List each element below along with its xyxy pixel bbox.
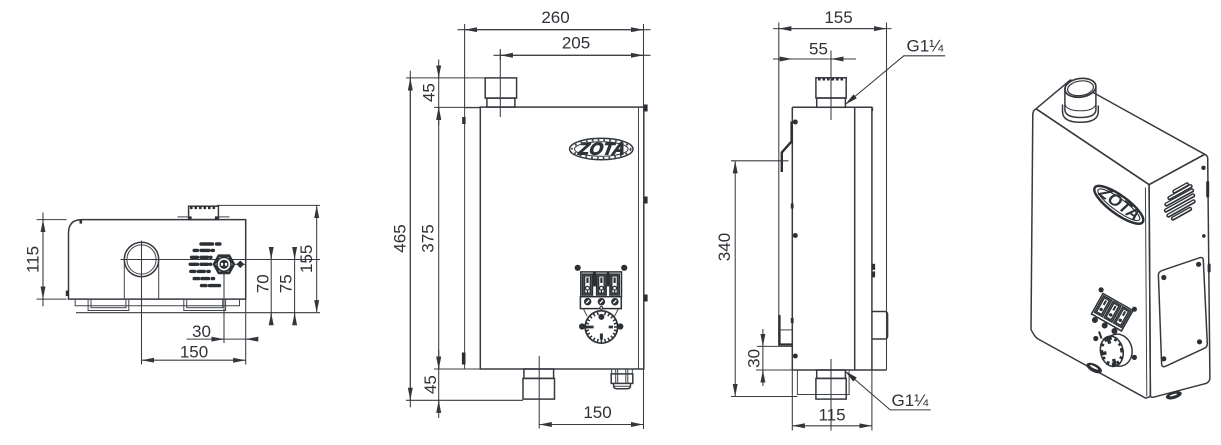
svg-text:340: 340 bbox=[715, 233, 734, 261]
dimension 150 (top view) bbox=[142, 343, 246, 362]
bottom stub centerline bbox=[830, 359, 832, 431]
svg-text:150: 150 bbox=[180, 343, 208, 362]
svg-text:30: 30 bbox=[744, 349, 763, 368]
svg-text:55: 55 bbox=[809, 40, 828, 59]
top stub centerline bbox=[499, 51, 501, 118]
gland centerline with node diamond bbox=[233, 263, 246, 265]
thermostat knob (front view) bbox=[583, 309, 618, 344]
foot right bbox=[1165, 390, 1183, 401]
thermostat knob (iso) bbox=[1098, 331, 1136, 369]
dimension 75 bbox=[277, 249, 296, 321]
svg-text:30: 30 bbox=[192, 322, 211, 341]
svg-text:115: 115 bbox=[24, 246, 43, 273]
vent slats (iso right face) bbox=[1166, 184, 1194, 218]
dimension 45 bottom bbox=[421, 350, 481, 418]
circuit breaker (front view) bbox=[581, 272, 622, 297]
dimension 70 bbox=[253, 249, 272, 321]
front face of cabinet bbox=[1031, 109, 1150, 398]
face screws (iso right) bbox=[1201, 166, 1205, 170]
hinge ticks (front door edge) bbox=[872, 264, 875, 270]
knob bump on door bbox=[872, 312, 888, 340]
base plate (top view) bbox=[75, 299, 239, 310]
svg-text:G1¼: G1¼ bbox=[892, 391, 930, 410]
hinge ticks right bbox=[644, 105, 648, 112]
rear panel strip (left) bbox=[465, 108, 481, 369]
svg-text:45: 45 bbox=[421, 375, 440, 394]
svg-text:G1¼: G1¼ bbox=[907, 37, 945, 56]
leader G1 1/4 top bbox=[845, 37, 945, 105]
extension line from flue union top bbox=[217, 204, 320, 206]
right face of cabinet bbox=[1149, 154, 1210, 397]
ZOTA badge (iso) bbox=[1090, 179, 1150, 230]
base tray (side view) bbox=[797, 370, 849, 395]
dimension 150 (front view) bbox=[539, 369, 643, 429]
cable gland (top view, hex nut) bbox=[214, 256, 234, 273]
svg-text:465: 465 bbox=[390, 224, 409, 252]
body (side view) bbox=[792, 23, 886, 371]
dimension 375 bbox=[419, 107, 439, 369]
panel screws (iso front) bbox=[1099, 287, 1104, 292]
bottom inlet stub (front view) bbox=[523, 369, 555, 399]
boiler body outline (top view) bbox=[69, 220, 246, 300]
bottom stub centerline bbox=[538, 356, 540, 429]
top stub centerline bbox=[830, 51, 832, 121]
hinge ticks (iso right edge) bbox=[1206, 181, 1209, 198]
dimension 340 bbox=[715, 161, 798, 397]
svg-text:205: 205 bbox=[562, 34, 590, 53]
dimension 30 (side view) bbox=[744, 329, 792, 386]
bottom inlet stub (side view) bbox=[816, 370, 846, 399]
lower wall bracket bbox=[779, 315, 792, 345]
foot front bbox=[1085, 361, 1104, 376]
svg-text:155: 155 bbox=[297, 245, 316, 273]
dimension 465 bbox=[390, 71, 434, 408]
top outlet stub (side view) bbox=[816, 78, 846, 108]
svg-text:ZOTA: ZOTA bbox=[576, 138, 627, 158]
leader G1 1/4 bottom bbox=[845, 371, 931, 410]
dimension 205 bbox=[494, 34, 651, 60]
tick on left edge bottom bbox=[66, 291, 69, 297]
horizontal centerline through circle and gland bbox=[121, 259, 321, 261]
vertical centerline of circle bbox=[141, 241, 143, 365]
rounded front-right edge (double line) bbox=[1145, 188, 1146, 397]
foot line / bottom extension bbox=[406, 399, 523, 401]
collar side lines down to base bbox=[124, 261, 158, 299]
top outlet stub (front view) bbox=[485, 78, 516, 107]
control panel screws bbox=[575, 265, 581, 271]
breaker terminal box bbox=[580, 297, 621, 310]
boiler body (front view) bbox=[480, 107, 644, 369]
circuit breaker (iso) bbox=[1088, 294, 1133, 337]
top face of cabinet bbox=[1036, 80, 1205, 185]
vent slots (top view) bbox=[190, 244, 220, 286]
svg-text:260: 260 bbox=[541, 8, 569, 27]
dimension 30 (top view) bbox=[187, 299, 258, 364]
svg-text:75: 75 bbox=[277, 274, 296, 293]
flue union (rear pipe, top view) bbox=[178, 206, 230, 219]
dimension 115 bbox=[24, 213, 67, 307]
svg-text:115: 115 bbox=[818, 406, 845, 425]
svg-text:70: 70 bbox=[253, 274, 272, 293]
svg-text:45: 45 bbox=[419, 83, 438, 102]
gland vertical extension line bbox=[223, 272, 225, 343]
upper wall bracket bbox=[782, 122, 792, 173]
screw dots on back edge bbox=[793, 120, 798, 125]
hinge ticks left bbox=[462, 117, 465, 124]
dimension 45 top bbox=[419, 60, 485, 126]
cable gland (front view bottom) bbox=[611, 369, 633, 389]
dimension 260 bbox=[458, 8, 651, 108]
step tick on top edge bbox=[80, 220, 83, 224]
rear panel edge line bbox=[778, 23, 780, 346]
dimension 155 (top view) bbox=[297, 205, 317, 312]
dimension 155 (side view) bbox=[773, 8, 892, 29]
svg-text:150: 150 bbox=[583, 403, 611, 422]
ZOTA badge (front view) bbox=[570, 138, 633, 159]
base bottom extension line bbox=[76, 312, 320, 314]
access panel (iso right face) bbox=[1158, 257, 1207, 366]
svg-text:155: 155 bbox=[824, 8, 852, 27]
flue pipe cylinder bbox=[1063, 76, 1099, 122]
svg-text:375: 375 bbox=[419, 224, 438, 252]
flue collar circle bbox=[124, 242, 158, 276]
dimension 115 (side view) bbox=[792, 370, 872, 431]
dimension 55 (side view) bbox=[773, 40, 856, 60]
inner right edge line bbox=[638, 107, 640, 369]
